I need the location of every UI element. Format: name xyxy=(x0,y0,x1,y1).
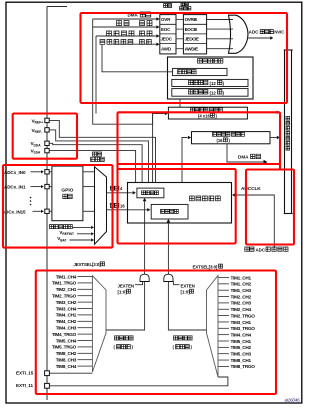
node: flag header 标志 xyxy=(164,4,172,8)
svg-text:TIM3_CH4: TIM3_CH4 xyxy=(56,306,77,311)
node: start trigger regular group 启动触发(规则组) xyxy=(174,336,193,340)
flag status box (OVR/EOC/JEOC/AWD) xyxy=(160,15,176,54)
svg-text:ai16046: ai16046 xyxy=(285,398,301,403)
svg-text:TIM3_CH1: TIM3_CH1 xyxy=(231,320,252,325)
svg-text:DMA: DMA xyxy=(238,155,249,160)
wire: injected data to bus xyxy=(247,111,276,113)
svg-text:TIM2_CH3: TIM2_CH3 xyxy=(231,301,252,306)
wire: end of conversion to EOC flag xyxy=(93,26,158,28)
analog to digital converter box 模数转换器 xyxy=(128,183,232,224)
annotation: red box analog inputs xyxy=(3,165,113,248)
svg-text:TIM2_CH4: TIM2_CH4 xyxy=(231,307,252,312)
svg-text:16: 16 xyxy=(120,203,125,208)
injected trigger mux JEXTSEL xyxy=(92,276,106,372)
annotation: red box ADC core xyxy=(118,169,236,244)
wire: EXTI_15 to injected mux xyxy=(49,372,92,374)
svg-text:TIM2_CH1: TIM2_CH1 xyxy=(56,287,77,292)
wire: VDDA to ADC xyxy=(49,143,142,182)
svg-text:EXTI_11: EXTI_11 xyxy=(16,383,33,388)
svg-text:GPIO: GPIO xyxy=(61,188,73,194)
injected data registers box 注入数据寄存器(4x16位) xyxy=(168,107,247,119)
svg-text:TIM5_CH2: TIM5_CH2 xyxy=(231,345,252,350)
edge detect gate JEXTEN xyxy=(140,274,149,281)
svg-text:TIM8_CH4: TIM8_CH4 xyxy=(56,364,77,369)
svg-text:[1:0]: [1:0] xyxy=(118,289,128,294)
node: header 中断 使能位 xyxy=(181,2,188,5)
svg-text:[1:0]: [1:0] xyxy=(181,289,191,294)
annotation: red box triggers section xyxy=(36,271,276,395)
node: EXTEN[1:0] bits label xyxy=(174,282,180,285)
svg-text:DDA: DDA xyxy=(34,143,42,147)
wire: data to watchdog xyxy=(179,99,181,107)
wire: VREF+ to ADC xyxy=(49,120,155,182)
svg-text:TIM8_TRGO: TIM8_TRGO xyxy=(231,364,256,369)
wire: VREF- to ADC xyxy=(49,130,148,183)
injected channels box 注入通道 xyxy=(137,188,164,198)
annotation: red box data registers xyxy=(118,112,281,164)
svg-text:TIM4_CH1: TIM4_CH1 xyxy=(56,313,77,318)
svg-text:TIM5_TRGO: TIM5_TRGO xyxy=(52,345,77,350)
svg-text:TIM3_TRGO: TIM3_TRGO xyxy=(231,326,256,331)
wire: up to 16 regular channels 多达16 xyxy=(110,203,119,207)
svg-text:TIM1_CH1: TIM1_CH1 xyxy=(231,275,252,280)
wire: analog watchdog event to AWD flag xyxy=(112,43,158,45)
svg-text:TIM3_CH2: TIM3_CH2 xyxy=(56,300,77,305)
svg-text:TIM2_TRGO: TIM2_TRGO xyxy=(52,294,77,299)
regular trigger mux EXTSEL xyxy=(207,276,219,378)
GPIO port box xyxy=(52,166,83,221)
wires: enables to OR gate xyxy=(207,19,233,21)
analog multiplexer xyxy=(95,167,107,244)
analog mux label 模拟复用器 xyxy=(93,152,102,156)
svg-text:ADC: ADC xyxy=(249,30,260,35)
svg-text:JEXTEN: JEXTEN xyxy=(118,283,134,288)
regular channels box 规则通道 xyxy=(151,204,188,219)
upper threshold box 阈值上限(12位) xyxy=(172,79,248,86)
wire: EXTI_11 to regular mux xyxy=(49,377,228,386)
svg-text:TIM8_CH3: TIM8_CH3 xyxy=(56,358,77,363)
wire: DMA overrun to OVR flag xyxy=(93,18,158,20)
annotation: red box VREF pins xyxy=(13,114,77,159)
svg-text:(4 x16: (4 x16 xyxy=(198,114,211,119)
svg-text:ADC: ADC xyxy=(256,247,266,252)
wire: injected end of conversion to JEOC flag xyxy=(96,35,158,37)
wire: up to 4 injected channels 多达4 xyxy=(110,186,119,190)
svg-text:EXTI_15: EXTI_15 xyxy=(16,370,34,375)
compare result box 比较结果 xyxy=(173,68,227,75)
svg-text:EXTSEL[3:0]: EXTSEL[3:0] xyxy=(193,264,218,269)
svg-text:ADCCLK: ADCCLK xyxy=(241,186,261,192)
address/data bus bar 地址/数据总线 xyxy=(284,50,286,214)
svg-text:TIM4_CH3: TIM4_CH3 xyxy=(56,326,77,331)
svg-text:TIM8_CH2: TIM8_CH2 xyxy=(56,351,77,356)
svg-text:TIM8_CH1: TIM8_CH1 xyxy=(231,358,252,363)
annotation: red box ADCCLK xyxy=(246,170,294,245)
svg-text:ADCx_IN15: ADCx_IN15 xyxy=(2,209,26,214)
svg-text:JEOCIE: JEOCIE xyxy=(185,37,199,42)
svg-text:(16: (16 xyxy=(216,138,223,143)
svg-text:TIM5_CH3: TIM5_CH3 xyxy=(231,352,252,357)
svg-text:(12: (12 xyxy=(210,90,217,95)
svg-text:SSA: SSA xyxy=(34,151,41,155)
svg-text:REF+: REF+ xyxy=(35,121,44,125)
annotation: red bridge segment xyxy=(116,163,118,170)
svg-text:OVRIE: OVRIE xyxy=(185,17,198,22)
wire: regular start trigger to ADC xyxy=(167,222,169,274)
node: temperature sensor input 温度传感器 xyxy=(49,225,58,229)
wire: ADC interrupt to NVIC xyxy=(248,37,270,39)
wire: ADC output to regular register xyxy=(182,138,188,183)
wires: flag to enable connectors xyxy=(176,19,183,21)
svg-text:TIM5_CH4: TIM5_CH4 xyxy=(56,338,77,343)
svg-text:ADCx_IN0: ADCx_IN0 xyxy=(4,170,26,175)
interrupt enable box (OVRIE/EOCIE/JEOCIE/AWDIE) xyxy=(183,15,206,54)
svg-text:TIM1_CH3: TIM1_CH3 xyxy=(231,288,252,293)
regular data register box 规则数据寄存器(16位) xyxy=(192,132,271,144)
wire: regular data to bus xyxy=(270,137,277,139)
svg-text:TIM1_CH2: TIM1_CH2 xyxy=(231,282,252,287)
wire: injected mux output xyxy=(106,282,145,331)
svg-text:REF-: REF- xyxy=(35,130,43,134)
wire: compare result to AWD flag xyxy=(102,44,173,72)
svg-text:BAT: BAT xyxy=(60,238,66,242)
svg-text:TIM5_CH1: TIM5_CH1 xyxy=(231,339,252,344)
svg-text:TIM4_CH2: TIM4_CH2 xyxy=(56,319,77,324)
svg-text:REFINT: REFINT xyxy=(62,232,74,236)
svg-text:EOC: EOC xyxy=(161,27,171,32)
wire: VSSA to ADC xyxy=(49,150,135,182)
svg-text:ADCx_IN1: ADCx_IN1 xyxy=(4,185,26,190)
svg-text:JEXTSEL[3:0]: JEXTSEL[3:0] xyxy=(74,262,102,267)
annotation: red box interrupts/flags section xyxy=(81,13,288,103)
wire: top stub xyxy=(47,6,67,8)
svg-text:TIM2_TRGO: TIM2_TRGO xyxy=(231,313,256,318)
svg-text:TIM1_TRGO: TIM1_TRGO xyxy=(52,281,77,286)
wire: OVR/EOC flag riser xyxy=(93,19,153,124)
analog watchdog block 模拟看门狗 xyxy=(168,57,254,99)
OR gate U1 (interrupt) xyxy=(229,15,249,53)
svg-text:TIM4_TRGO: TIM4_TRGO xyxy=(52,332,77,337)
lower threshold box 阈值下限(12位) xyxy=(172,89,248,97)
node: start trigger injected group 启动触发(注入组) xyxy=(115,336,134,340)
wire: regular mux output xyxy=(168,282,206,331)
wire: ADC output to injected register xyxy=(153,114,165,183)
wire: ADCCLK xyxy=(235,195,274,248)
svg-text:EXTEN: EXTEN xyxy=(181,283,195,288)
wire: injected start trigger to ADC xyxy=(144,201,146,274)
svg-text:TIM4_CH4: TIM4_CH4 xyxy=(231,332,252,337)
svg-text:OVR: OVR xyxy=(161,17,171,22)
svg-text:TIM1_CH4: TIM1_CH4 xyxy=(56,274,77,279)
wire: JEXTEN stub xyxy=(135,282,143,285)
wire: JEOC flag riser xyxy=(95,36,97,114)
svg-text:AWDIE: AWDIE xyxy=(185,46,199,51)
wire: left vertical pin bus xyxy=(46,7,48,401)
wire: DMA request xyxy=(227,144,264,162)
svg-text:TIM2_CH2: TIM2_CH2 xyxy=(231,294,252,299)
node: ellipsis dots xyxy=(30,197,32,199)
svg-text:AWD: AWD xyxy=(161,46,172,51)
svg-text:JEOC: JEOC xyxy=(161,37,173,42)
svg-text:EOCIE: EOCIE xyxy=(185,27,198,32)
edge detect gate EXTEN xyxy=(164,274,173,281)
svg-text:NVIC: NVIC xyxy=(274,30,285,35)
wires: pins to GPIO to mux xyxy=(49,171,52,173)
node: from ADC prescaler 来自ADC预分频器 xyxy=(245,247,254,251)
svg-text:(12: (12 xyxy=(210,81,217,86)
